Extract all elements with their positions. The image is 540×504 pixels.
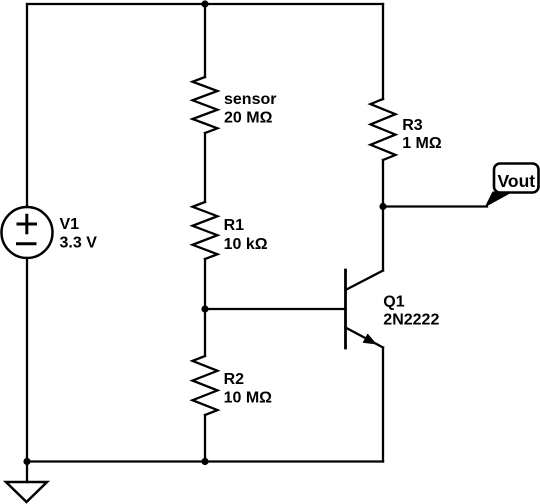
svg-text:Q1: Q1 xyxy=(383,294,404,311)
svg-text:10 MΩ: 10 MΩ xyxy=(224,389,273,406)
svg-text:sensor: sensor xyxy=(224,91,276,108)
svg-text:10 kΩ: 10 kΩ xyxy=(224,236,268,253)
svg-text:V1: V1 xyxy=(60,216,80,233)
svg-text:R1: R1 xyxy=(224,217,245,234)
svg-text:1 MΩ: 1 MΩ xyxy=(402,135,442,152)
svg-text:Vout: Vout xyxy=(498,171,536,191)
svg-text:R2: R2 xyxy=(224,371,245,388)
svg-text:3.3 V: 3.3 V xyxy=(60,235,98,252)
svg-text:2N2222: 2N2222 xyxy=(383,312,439,329)
svg-text:R3: R3 xyxy=(402,117,423,134)
svg-text:20 MΩ: 20 MΩ xyxy=(224,109,273,126)
